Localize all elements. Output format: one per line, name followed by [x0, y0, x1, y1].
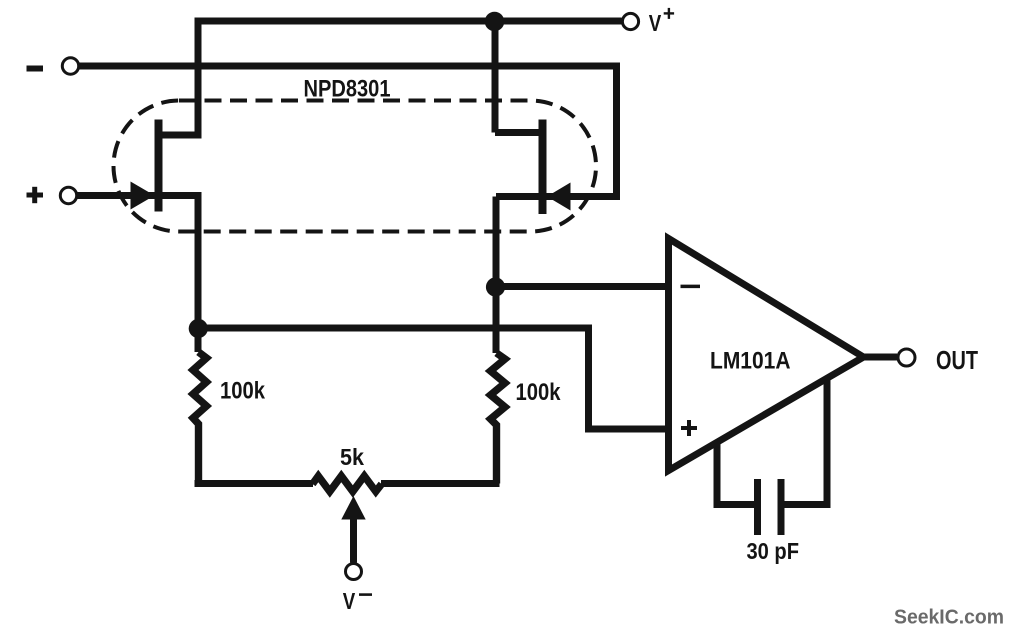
op-amp plus pin label — [681, 420, 697, 436]
svg-text:V: V — [343, 588, 356, 614]
svg-text:100k: 100k — [516, 379, 561, 406]
label plus input — [27, 187, 44, 203]
svg-text:LM101A: LM101A — [710, 348, 791, 375]
wire - input rail to Q2 gate — [79, 66, 617, 197]
junction top rail — [485, 12, 505, 32]
wire capacitor left lead — [717, 442, 754, 505]
potentiometer wiper arrow — [341, 496, 365, 520]
wire bottom left segment — [195, 480, 314, 487]
terminal OUT — [898, 349, 915, 366]
junction node B — [189, 319, 208, 338]
wire wiper to V- terminal — [350, 517, 357, 563]
svg-text:SeekIC.com: SeekIC.com — [894, 607, 1004, 629]
capacitor C1 right plate — [778, 479, 785, 535]
wire top rail to V+ — [160, 21, 622, 135]
transistor Q2 channel bar — [539, 120, 547, 215]
wire Q2 drain up — [495, 21, 543, 133]
wire bottom right segment — [381, 480, 500, 487]
svg-text:100k: 100k — [220, 378, 265, 405]
wire node A to op-amp minus input — [496, 283, 666, 290]
wire op-amp output — [864, 354, 898, 361]
terminal V+ — [622, 13, 638, 29]
capacitor C1 left plate — [754, 479, 761, 535]
terminal V- — [346, 564, 362, 580]
svg-text:NPD8301: NPD8301 — [304, 76, 391, 103]
label V+ — [649, 8, 674, 36]
wire Q2 source down right rail — [493, 197, 500, 354]
svg-text:OUT: OUT — [936, 345, 978, 375]
dashed package outline NPD8301 — [114, 101, 597, 232]
resistor 100k right — [491, 353, 506, 484]
wire capacitor right lead — [785, 379, 828, 505]
terminal plus input — [60, 187, 76, 203]
svg-text:5k: 5k — [340, 444, 364, 470]
transistor Q2 gate arrow — [547, 183, 571, 211]
terminal minus input — [62, 58, 78, 74]
wire + input to Q1 gate and source down left rail — [78, 196, 199, 353]
transistor Q1 channel bar — [155, 120, 163, 212]
wire node B to op-amp plus input — [198, 328, 665, 429]
op-amp U1 LM101A — [669, 239, 864, 471]
potentiometer 5k — [313, 476, 382, 492]
junction node A — [486, 277, 505, 296]
op-amp minus pin label — [681, 285, 701, 289]
label V- — [343, 588, 372, 614]
svg-text:V: V — [649, 10, 662, 36]
label minus input — [27, 66, 44, 72]
svg-text:30 pF: 30 pF — [747, 538, 800, 564]
resistor 100k left — [193, 352, 207, 484]
transistor Q1 gate arrow — [131, 182, 155, 210]
